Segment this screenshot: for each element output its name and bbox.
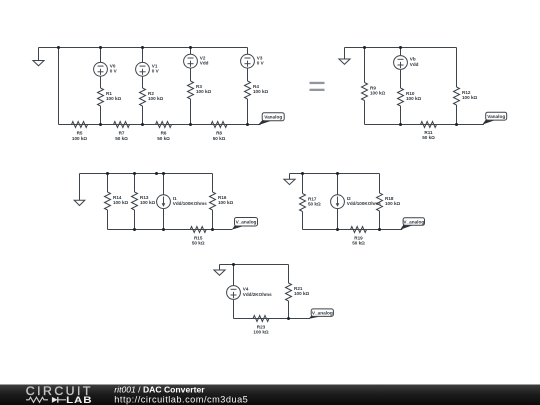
resistor R3 100 k&#937; <box>188 81 212 99</box>
node V0 top junction <box>99 46 102 49</box>
resistor R11 50 k&#937; <box>421 122 437 141</box>
resistor R23 100 k&#937; <box>253 316 269 335</box>
resistor R10 100 k&#937; <box>398 88 422 106</box>
net flag Vanalog circuit B <box>482 112 506 124</box>
node I2 top junction <box>336 172 339 175</box>
logo diode symbol <box>52 397 66 403</box>
wire R2 bottom <box>142 106 144 125</box>
svg-text:R11: R11 <box>424 130 433 135</box>
wire R3 bottom <box>190 99 192 125</box>
svg-text:LAB: LAB <box>66 396 92 405</box>
svg-text:100 kΩ: 100 kΩ <box>253 89 268 94</box>
svg-text:50 kΩ: 50 kΩ <box>192 241 205 246</box>
svg-text:100 kΩ: 100 kΩ <box>140 200 155 205</box>
svg-text:Vanalog: Vanalog <box>487 114 505 119</box>
svg-text:100 kΩ: 100 kΩ <box>218 200 233 205</box>
resistor R12 100 k&#937; <box>454 87 478 105</box>
svg-text:R3: R3 <box>196 84 202 89</box>
node R9 top junction <box>363 46 366 49</box>
wire top rail circuit E <box>220 264 289 266</box>
current source I2 <box>331 195 382 209</box>
wire V3 top <box>247 48 249 55</box>
net flag V_analog circuit C <box>232 218 258 230</box>
equals sign <box>310 82 325 91</box>
wire Vb top <box>400 48 402 56</box>
wire R12 top <box>456 48 458 88</box>
net flag V_analog circuit D <box>400 218 424 230</box>
svg-text:100 kΩ: 100 kΩ <box>72 136 87 141</box>
svg-text:R9: R9 <box>370 85 376 90</box>
wire bottom rail circuit C <box>108 229 233 231</box>
node junction A-top-left <box>57 46 60 49</box>
node V2 top junction <box>189 46 192 49</box>
svg-text:0 V: 0 V <box>257 61 265 66</box>
wire R13 bottom <box>134 210 136 230</box>
svg-text:rit001 / DAC Converter: rit001 / DAC Converter <box>114 384 205 394</box>
wire V2 to R3 <box>190 68 192 81</box>
ground GND-D <box>284 174 295 185</box>
svg-text:V_analog: V_analog <box>312 310 333 315</box>
wire V0 to R1 <box>100 77 102 89</box>
node R13 top junction <box>133 172 136 175</box>
svg-text:100 kΩ: 100 kΩ <box>253 330 268 335</box>
resistor R2 100 k&#937; <box>140 88 164 106</box>
node I1 top junction <box>162 172 165 175</box>
wire I1 bottom <box>163 209 165 230</box>
svg-text:R12: R12 <box>462 90 471 95</box>
svg-text:50 kΩ: 50 kΩ <box>352 241 365 246</box>
svg-text:R5: R5 <box>77 131 83 136</box>
svg-text:Vdd/2KOhms: Vdd/2KOhms <box>243 292 272 297</box>
wire Vb to R10 <box>400 70 402 88</box>
svg-text:R15: R15 <box>194 235 203 240</box>
wire R17 bottom <box>302 212 304 230</box>
ground GND-C <box>74 174 85 206</box>
svg-text:R1: R1 <box>106 91 112 96</box>
svg-text:R14: R14 <box>113 195 122 200</box>
net flag Vanalog circuit A <box>258 113 284 126</box>
wire top rail circuit B <box>345 47 457 49</box>
svg-text:R18: R18 <box>385 196 394 201</box>
svg-text:Vdd: Vdd <box>200 61 209 66</box>
svg-text:Vanalog: Vanalog <box>264 114 282 119</box>
resistor R4 100 k&#937; <box>245 81 269 99</box>
voltage source V4 <box>227 286 272 300</box>
node R12 bottom junction <box>455 123 458 126</box>
voltage source Vb <box>394 56 419 70</box>
svg-text:R4: R4 <box>253 84 259 89</box>
ground GND-B <box>339 48 350 65</box>
svg-text:100 kΩ: 100 kΩ <box>370 91 385 96</box>
wire I2 bottom <box>337 209 339 230</box>
resistor R1 100 k&#937; <box>98 88 122 106</box>
resistor R8 50 k&#937; <box>211 122 227 141</box>
svg-text:R23: R23 <box>257 324 266 329</box>
current source I1 <box>157 195 208 209</box>
svg-text:R19: R19 <box>354 235 363 240</box>
svg-text:R8: R8 <box>216 131 222 136</box>
ground GND-E <box>214 265 225 276</box>
wire V2 top <box>190 48 192 55</box>
svg-text:50 kΩ: 50 kΩ <box>213 136 226 141</box>
wire top rail circuit D <box>290 173 380 175</box>
resistor R17 50 k&#937; <box>300 194 321 212</box>
wire top rail circuit C <box>80 173 213 175</box>
node R4 bottom junction <box>246 123 249 126</box>
resistor R9 100 k&#937; <box>362 83 386 101</box>
node R14 top junction <box>106 172 109 175</box>
node Vb top junction <box>399 46 402 49</box>
node R16 bottom junction <box>211 228 214 231</box>
wire left return branch circuit A <box>58 48 60 125</box>
voltage source V3 <box>241 54 265 68</box>
node V4 top junction <box>232 263 235 266</box>
resistor R6 50 k&#937; <box>156 122 172 141</box>
resistor R7 50 k&#937; <box>114 122 130 141</box>
node R2 bottom junction <box>141 123 144 126</box>
net flag V_analog circuit E <box>309 309 334 319</box>
svg-text:R2: R2 <box>148 91 154 96</box>
wire R16 bottom <box>212 210 214 230</box>
svg-text:50 kΩ: 50 kΩ <box>115 136 128 141</box>
node R10 bottom junction <box>399 123 402 126</box>
wire R4 bottom <box>247 99 249 125</box>
voltage source V1 <box>136 62 160 76</box>
wire R16 top <box>212 174 214 193</box>
wire bottom rail circuit D <box>303 229 403 231</box>
resistor R19 50 k&#937; <box>351 227 367 246</box>
svg-text:R21: R21 <box>294 286 303 291</box>
wire R9 bottom <box>364 101 366 125</box>
footer bar <box>0 385 540 405</box>
node R13 bottom junction <box>133 228 136 231</box>
logo resistor symbol <box>26 397 48 402</box>
svg-text:Vdd/100KOhms: Vdd/100KOhms <box>173 201 207 206</box>
svg-text:R10: R10 <box>406 91 415 96</box>
wire V3 to R4 <box>247 68 249 81</box>
wire R21 top <box>288 265 290 284</box>
voltage source V2 <box>184 54 209 68</box>
wire top rail circuit A <box>39 47 248 49</box>
wire R17 top <box>302 174 304 194</box>
wire R18 top <box>379 174 381 194</box>
svg-text:100 kΩ: 100 kΩ <box>106 96 121 101</box>
svg-text:R16: R16 <box>218 195 227 200</box>
node R17 top junction <box>301 172 304 175</box>
node I2 bottom junction <box>336 228 339 231</box>
svg-text:100 kΩ: 100 kΩ <box>196 89 211 94</box>
wire bottom rail circuit B <box>365 124 484 126</box>
wire R13 top <box>134 174 136 193</box>
wire I1 top <box>163 174 165 195</box>
wire R12 bottom <box>456 105 458 125</box>
wire R9 top <box>364 48 366 83</box>
node R1 bottom junction <box>99 123 102 126</box>
wire V1 top <box>142 48 144 63</box>
wire V4 bottom <box>233 300 235 319</box>
svg-text:50 kΩ: 50 kΩ <box>422 135 435 140</box>
resistor R14 100 k&#937; <box>105 192 129 210</box>
svg-text:0 V: 0 V <box>152 69 160 74</box>
svg-text:Vdd: Vdd <box>410 62 419 67</box>
wire V1 to R2 <box>142 77 144 89</box>
svg-text:R7: R7 <box>119 131 125 136</box>
resistor R16 100 k&#937; <box>210 192 234 210</box>
svg-text:R13: R13 <box>140 195 149 200</box>
wire I2 top <box>337 174 339 195</box>
svg-text:http://circuitlab.com/cm3dua5: http://circuitlab.com/cm3dua5 <box>114 394 248 404</box>
node wire joint on rail C <box>155 172 158 175</box>
node I1 bottom junction <box>162 228 165 231</box>
svg-text:50 kΩ: 50 kΩ <box>157 136 170 141</box>
resistor R5 100 k&#937; <box>72 122 88 141</box>
resistor R13 100 k&#937; <box>132 192 156 210</box>
svg-text:100 kΩ: 100 kΩ <box>113 200 128 205</box>
ground GND-A <box>33 48 44 66</box>
resistor R18 100 k&#937; <box>377 193 401 211</box>
wire R14 bottom <box>107 210 109 230</box>
node R3 bottom junction <box>189 123 192 126</box>
wire bottom rail circuit A <box>59 124 261 126</box>
node V1 top junction <box>141 46 144 49</box>
node R18 bottom junction <box>378 228 381 231</box>
svg-text:R17: R17 <box>308 196 317 201</box>
svg-text:0 V: 0 V <box>110 69 118 74</box>
wire V0 top <box>100 48 102 63</box>
resistor R15 50 k&#937; <box>190 227 206 246</box>
wire R1 bottom <box>100 106 102 125</box>
svg-text:100 kΩ: 100 kΩ <box>462 95 477 100</box>
wire R10 bottom <box>400 106 402 125</box>
wire bottom rail circuit E <box>234 318 310 320</box>
svg-text:R6: R6 <box>161 131 167 136</box>
node R21 bottom junction <box>287 317 290 320</box>
voltage source V0 <box>94 62 118 76</box>
svg-text:100 kΩ: 100 kΩ <box>148 96 163 101</box>
svg-text:V_analog: V_analog <box>236 219 257 224</box>
svg-text:100 kΩ: 100 kΩ <box>406 96 421 101</box>
svg-text:50 kΩ: 50 kΩ <box>308 202 321 207</box>
svg-text:100 kΩ: 100 kΩ <box>385 201 400 206</box>
resistor R21 100 k&#937; <box>286 283 310 301</box>
svg-text:100 kΩ: 100 kΩ <box>294 291 309 296</box>
wire R14 top <box>107 174 109 193</box>
svg-text:V_analog: V_analog <box>403 219 424 224</box>
wire V4 top <box>233 265 235 286</box>
wire R21 bottom <box>288 301 290 319</box>
wire R18 bottom <box>379 211 381 230</box>
